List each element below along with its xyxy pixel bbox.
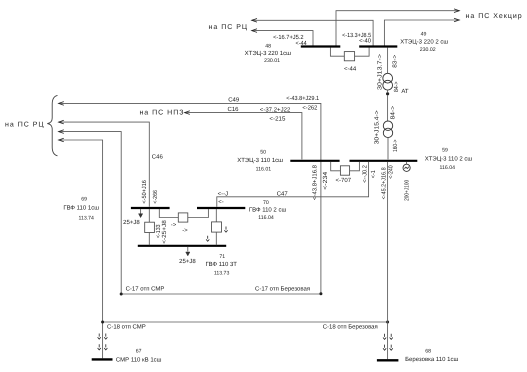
node AT midpoint bbox=[386, 90, 389, 121]
svg-text:84->: 84-> bbox=[389, 105, 396, 119]
svg-text:200+J100: 200+J100 bbox=[404, 179, 411, 201]
svg-text:84->: 84-> bbox=[393, 81, 400, 92]
bus 68 (Berezovka) bbox=[377, 359, 399, 361]
svg-text:ГВФ 110 2 сш: ГВФ 110 2 сш bbox=[249, 207, 287, 214]
svg-text:С-18 отп Березовая: С-18 отп Березовая bbox=[323, 324, 378, 331]
svg-text:71: 71 bbox=[219, 254, 225, 260]
svg-text:<-37.2+J22: <-37.2+J22 bbox=[260, 107, 291, 114]
load arrows at SMR bbox=[98, 334, 108, 350]
svg-text:<-133: <-133 bbox=[155, 224, 162, 238]
bus 49 (220kV 2s) bbox=[359, 45, 397, 47]
svg-text:59: 59 bbox=[442, 148, 448, 154]
svg-text:68: 68 bbox=[425, 349, 431, 355]
wire C-18 branch bbox=[59, 138, 390, 358]
svg-text:на ПС НПЗ: на ПС НПЗ bbox=[139, 110, 184, 117]
svg-text:<-215: <-215 bbox=[269, 116, 286, 123]
svg-text:<-25+J8: <-25+J8 bbox=[161, 220, 168, 244]
breaker bus70 to bus71 bbox=[212, 209, 222, 245]
svg-text:ХТЭЦ-3 220 1сш: ХТЭЦ-3 220 1сш bbox=[245, 50, 291, 57]
svg-text:С-17 отп СМР: С-17 отп СМР bbox=[126, 285, 165, 292]
breaker bus tie 69-70 bbox=[159, 209, 208, 222]
wire C-17 branch bbox=[59, 130, 323, 296]
svg-text:70: 70 bbox=[263, 200, 269, 206]
svg-text:ГВФ 110 1сш: ГВФ 110 1сш bbox=[63, 205, 99, 212]
transformer AT lower windings bbox=[383, 121, 392, 159]
svg-text:АТ: АТ bbox=[401, 88, 409, 95]
wire line to PS Hekcir circuit 2 (from bus 49) bbox=[384, 18, 459, 46]
bus 48 (220kV 1s) bbox=[301, 45, 341, 47]
breaker 220kV bus tie bbox=[330, 48, 369, 61]
svg-text:25+J8: 25+J8 bbox=[123, 219, 140, 226]
brace bbox=[47, 95, 57, 155]
breaker 110kV bus tie bbox=[331, 162, 360, 175]
load arrow on bus 71 bbox=[186, 247, 190, 256]
svg-text:<-43.8+J16.8: <-43.8+J16.8 bbox=[312, 164, 319, 200]
svg-text:<--J: <--J bbox=[218, 190, 229, 197]
load arrows at Berezovka bbox=[383, 334, 393, 350]
svg-text:<-: <- bbox=[218, 199, 224, 205]
wire C49 bbox=[59, 102, 321, 294]
svg-text:<-45.2+J16.8: <-45.2+J16.8 bbox=[381, 167, 388, 200]
svg-text:48: 48 bbox=[265, 44, 271, 50]
svg-text:->: -> bbox=[182, 228, 188, 234]
svg-text:С-18 отп СМР: С-18 отп СМР bbox=[107, 324, 146, 331]
bus 69 (GVF 1s) bbox=[131, 207, 170, 209]
svg-text:<-50+J16: <-50+J16 bbox=[141, 179, 148, 203]
svg-text:160->: 160-> bbox=[392, 139, 399, 152]
svg-text:ГВФ 110 3Т: ГВФ 110 3Т bbox=[205, 261, 237, 268]
svg-text:на ПС РЦ: на ПС РЦ bbox=[5, 122, 45, 129]
svg-text:83->: 83-> bbox=[392, 54, 399, 68]
bus 59 (110kV 2s) bbox=[350, 160, 418, 162]
transformer AT upper windings bbox=[383, 73, 393, 90]
generator at bus 59 bbox=[403, 162, 410, 172]
svg-text:ХТЭЦ-3 220 2 сш: ХТЭЦ-3 220 2 сш bbox=[400, 38, 448, 45]
bus 50 (110kV 1s) bbox=[290, 160, 339, 162]
wire line to PS RC circuit 1 (bus 49 riser) bbox=[252, 19, 373, 47]
wire C47 bbox=[217, 162, 369, 207]
svg-text:<-240: <-240 bbox=[388, 165, 395, 179]
wire line to PS RC circuit 2 (bus 48 riser) bbox=[252, 29, 313, 46]
svg-text:->: -> bbox=[171, 222, 177, 228]
bus 71 (GVF 3T) bbox=[138, 245, 226, 247]
svg-text:СМР 110 кВ 1сш: СМР 110 кВ 1сш bbox=[116, 357, 162, 364]
svg-text:С47: С47 bbox=[277, 190, 289, 197]
svg-text:30+J15.4->: 30+J15.4-> bbox=[373, 110, 380, 145]
svg-text:116.01: 116.01 bbox=[256, 166, 272, 172]
svg-text:<-707: <-707 bbox=[336, 177, 352, 184]
svg-text:230.01: 230.01 bbox=[264, 58, 280, 64]
breaker bus69 to bus71 bbox=[145, 209, 155, 245]
svg-text:на ПС РЦ: на ПС РЦ bbox=[209, 24, 249, 31]
svg-text:С49: С49 bbox=[228, 96, 240, 103]
svg-text:230.02: 230.02 bbox=[420, 47, 436, 53]
svg-text:50: 50 bbox=[260, 150, 266, 156]
bus 67 (SMR) bbox=[92, 358, 113, 360]
svg-text:Березовка 110 1сш: Березовка 110 1сш bbox=[405, 356, 458, 363]
svg-text:49: 49 bbox=[421, 31, 427, 37]
arrow down (right of breaker) bbox=[224, 227, 227, 233]
svg-text:116.04: 116.04 bbox=[258, 215, 274, 221]
svg-text:<-40: <-40 bbox=[359, 37, 372, 44]
load arrow on bus 69 bbox=[139, 209, 143, 218]
arrow down (below breaker) bbox=[206, 236, 209, 242]
svg-text:116.04: 116.04 bbox=[440, 165, 456, 171]
wire from bus 59 down to Berezovka bbox=[387, 162, 389, 359]
svg-text:69: 69 bbox=[81, 196, 87, 202]
svg-text:С46: С46 bbox=[152, 153, 164, 160]
svg-text:113.73: 113.73 bbox=[214, 270, 230, 276]
svg-text:25+J8: 25+J8 bbox=[179, 258, 196, 265]
wire AT riser from bus 49 bbox=[387, 48, 389, 74]
wire C46 bbox=[59, 120, 150, 207]
svg-text:С16: С16 bbox=[227, 106, 239, 113]
wire C16 to NPZ bbox=[185, 111, 302, 160]
svg-text:<--J0.2: <--J0.2 bbox=[361, 165, 368, 183]
svg-text:<-43.8+J29.1: <-43.8+J29.1 bbox=[286, 95, 319, 102]
svg-text:ХТЭЦ-3 110 1сш: ХТЭЦ-3 110 1сш bbox=[237, 157, 283, 164]
svg-text:<-44: <-44 bbox=[344, 65, 357, 72]
svg-text:67: 67 bbox=[136, 349, 142, 355]
svg-text:на ПС Хекцир: на ПС Хекцир bbox=[466, 13, 523, 20]
svg-text:<-1: <-1 bbox=[370, 170, 377, 179]
svg-text:С-17 отп Березовая: С-17 отп Березовая bbox=[255, 285, 310, 292]
svg-text:<-266: <-266 bbox=[152, 190, 159, 204]
svg-text:<-234: <-234 bbox=[322, 171, 329, 190]
bus 70 (GVF 2s) bbox=[197, 207, 245, 209]
svg-text:<-262: <-262 bbox=[302, 104, 318, 111]
wire line to PS Hekcir circuit 1 (from bus 48) bbox=[336, 9, 459, 46]
svg-text:ХТЭЦ-3 110 2 сш: ХТЭЦ-3 110 2 сш bbox=[425, 156, 473, 163]
svg-text:113.74: 113.74 bbox=[78, 216, 94, 222]
